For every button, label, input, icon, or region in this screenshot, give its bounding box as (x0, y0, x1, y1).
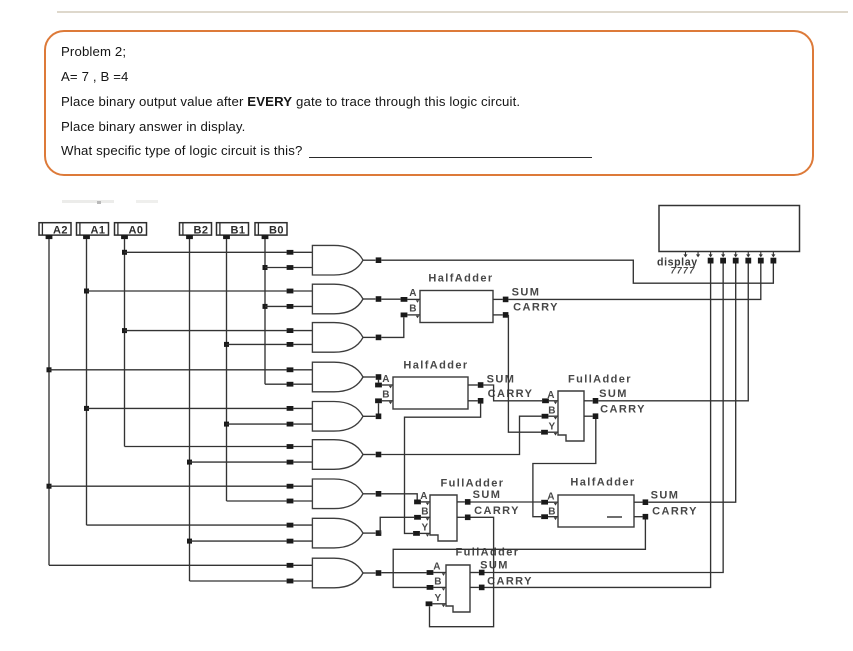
junction node (124.5,252.3) (122, 250, 127, 255)
wire net P3: U5 SUM to display pin 5 (648, 264, 736, 503)
full-adder U4 box (430, 495, 457, 541)
wire: input A2 vertical (48, 239, 50, 565)
display pin 2 (697, 252, 699, 255)
AND7 output nub (363, 493, 376, 495)
node under display pin 4 (720, 258, 726, 264)
svg-text:CARRY: CARRY (513, 302, 559, 314)
AND3 input wire A (125, 330, 287, 332)
AND2 input wire A (87, 290, 287, 292)
AND7 input wire A (49, 485, 287, 487)
svg-text:SUM: SUM (487, 374, 516, 386)
svg-text:A: A (547, 492, 556, 503)
wire net P5: U6 CARRY to display pin 3 (485, 264, 711, 588)
AND gate AND3 (312, 323, 363, 353)
input switch B1 (217, 223, 249, 239)
display pin 7 (760, 252, 762, 255)
display pin 8 (772, 252, 774, 255)
svg-text:B: B (548, 507, 557, 518)
svg-text:B: B (434, 577, 443, 588)
AND9 input wire B (190, 580, 287, 582)
junction node (265.0,267.5) (263, 265, 268, 270)
AND8 input wire A (87, 524, 287, 526)
svg-text:CARRY: CARRY (488, 388, 534, 400)
node under display pin 6 (745, 258, 751, 264)
wire: AND8 out to U4 B (380, 517, 414, 533)
svg-text:Y: Y (434, 593, 442, 604)
svg-text:SUM: SUM (599, 388, 628, 400)
wire net P1: U1 SUM to display pin 7 (508, 264, 760, 300)
wire net P4: U6 SUM to display pin 4 (485, 264, 724, 573)
AND6 input wire A (125, 446, 287, 448)
wire: AND7 out to U4 A (381, 494, 417, 500)
svg-text:HalfAdder: HalfAdder (428, 273, 493, 285)
full-adder U3 box (558, 391, 584, 441)
AND8 output nub (363, 532, 376, 534)
scan artifact line (57, 11, 848, 13)
junction node (189.5,462.1) (187, 460, 192, 465)
AND8 input wire B (190, 540, 287, 542)
wire: AND3 out to U1 B (381, 317, 404, 337)
AND1 input wire A (125, 251, 287, 253)
AND2 input wire B (265, 305, 287, 307)
input switch A0 (115, 223, 147, 239)
wire: U4 CARRY to U6 Y (430, 517, 494, 626)
svg-text:HalfAdder: HalfAdder (403, 360, 468, 372)
svg-text:CARRY: CARRY (474, 505, 520, 517)
AND9 output nub (363, 572, 376, 574)
svg-text:A2: A2 (53, 224, 68, 236)
AND gate AND9 (312, 558, 363, 588)
half-adder U5 box (558, 495, 634, 527)
svg-text:FullAdder: FullAdder (456, 547, 520, 559)
svg-text:B: B (548, 406, 557, 417)
AND9 input wire A (49, 564, 287, 566)
full-adder U6 box (446, 565, 470, 612)
junction node (189.5,541.1) (187, 539, 192, 544)
AND3 output nub (363, 336, 376, 338)
wire: U2 SUM to U3 A (483, 385, 542, 401)
svg-text:7777: 7777 (671, 266, 696, 276)
AND5 output nub (363, 415, 376, 417)
AND gate AND4 (312, 362, 363, 392)
AND gate AND5 (312, 402, 363, 432)
AND4 input wire A (49, 369, 287, 371)
display pin 3 (710, 252, 712, 255)
display pin 6 (747, 252, 749, 255)
junction node (86.5,291.0) (84, 289, 89, 294)
AND4 input wire B (265, 383, 287, 385)
wire: U2 CARRY to U4 Y (405, 403, 481, 533)
svg-text:A: A (382, 374, 391, 385)
display pin 5 (735, 252, 737, 255)
junction node (86.5,408.4) (84, 406, 89, 411)
AND2 output nub (363, 298, 376, 300)
svg-text:B0: B0 (269, 224, 284, 236)
AND1 output nub (363, 259, 376, 261)
svg-text:A1: A1 (90, 224, 105, 236)
wire: input A0 vertical (124, 239, 126, 447)
wire: AND6 out to U3 B (381, 416, 541, 454)
wire: U3 CARRY to U5 B (533, 419, 596, 517)
junction node (49.0,369.8) (47, 367, 52, 372)
svg-text:A: A (433, 562, 442, 573)
wire: input B2 vertical (189, 239, 191, 581)
node under display pin 3 (708, 258, 714, 264)
U5 internal dash (607, 516, 622, 518)
svg-text:Y: Y (421, 523, 429, 534)
junction node (124.5,330.6) (122, 328, 127, 333)
wire: input A1 vertical (86, 239, 88, 525)
svg-text:B2: B2 (193, 224, 208, 236)
AND gate AND2 (312, 284, 363, 314)
node under display pin 5 (733, 258, 739, 264)
AND7 input wire B (227, 500, 287, 502)
node under display pin 7 (758, 258, 764, 264)
AND1 input wire B (265, 267, 287, 269)
svg-text:A: A (409, 288, 418, 299)
problem statement box (44, 30, 814, 176)
junction node (265.0,306.4) (263, 304, 268, 309)
half-adder U1 box (420, 291, 493, 323)
AND4 output nub (363, 376, 376, 378)
AND3 input wire B (227, 343, 287, 345)
node under display pin 8 (771, 258, 777, 264)
input switch B2 (180, 223, 212, 239)
AND5 input wire B (227, 423, 287, 425)
wire: AND4 out to U2 A (378, 379, 380, 382)
AND5 input wire A (87, 407, 287, 409)
svg-text:SUM: SUM (512, 287, 541, 299)
svg-text:CARRY: CARRY (600, 404, 646, 416)
svg-text:Y: Y (548, 422, 556, 433)
svg-text:FullAdder: FullAdder (568, 374, 632, 386)
AND gate AND7 (312, 479, 363, 509)
svg-text:FullAdder: FullAdder (441, 478, 505, 490)
AND6 output nub (363, 454, 376, 456)
wire net P0: AND1 out to display pin 8 (381, 260, 773, 283)
input switch B0 (255, 223, 287, 239)
svg-text:A: A (420, 491, 429, 502)
svg-text:B1: B1 (230, 224, 245, 236)
svg-text:A0: A0 (128, 224, 143, 236)
wire: input B1 vertical (226, 239, 228, 501)
wire: U1 CARRY to U3 Y (508, 315, 541, 432)
wire: U4 SUM to U5 A (471, 501, 542, 503)
display pin 4 (722, 252, 724, 255)
svg-text:CARRY: CARRY (652, 506, 698, 518)
svg-text:B: B (382, 390, 391, 401)
wire: AND5 out to U2 B (378, 403, 380, 413)
AND gate AND8 (312, 518, 363, 548)
AND6 input wire B (190, 461, 287, 463)
input switch A1 (77, 223, 109, 239)
svg-text:HalfAdder: HalfAdder (570, 477, 635, 489)
svg-text:SUM: SUM (651, 490, 680, 502)
AND gate AND1 (312, 245, 363, 275)
wire: U5 CARRY to U6 B (393, 520, 645, 588)
wire: input B0 vertical (264, 239, 266, 384)
junction node (226.5,344.4) (224, 342, 229, 347)
wire: AND9 out to U6 A (381, 572, 426, 574)
svg-text:SUM: SUM (473, 489, 502, 501)
junction node (226.5,424.1) (224, 422, 229, 427)
wire net P2: U3 SUM to display pin 6 (598, 264, 748, 401)
svg-text:B: B (409, 304, 418, 315)
wire: AND2 out to U1 A (381, 298, 400, 300)
faint pencil smudge (62, 200, 114, 203)
input switch A2 (39, 223, 71, 239)
display pin 1 (685, 252, 687, 255)
svg-text:B: B (421, 507, 430, 518)
half-adder U2 box (393, 377, 468, 409)
AND gate AND6 (312, 440, 363, 470)
display box (659, 206, 800, 252)
junction node (49.0,486.2) (47, 484, 52, 489)
